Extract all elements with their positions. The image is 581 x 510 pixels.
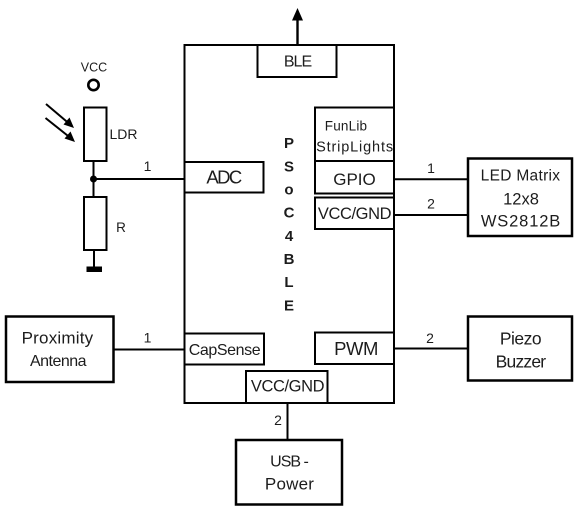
svg-text:B: B [284,251,295,268]
svg-text:VCC: VCC [81,61,107,75]
svg-text:1: 1 [427,160,435,176]
svg-text:2: 2 [274,412,282,428]
svg-text:L: L [284,274,293,291]
svg-text:4: 4 [285,228,294,245]
svg-text:C: C [284,205,295,222]
svg-text:Buzzer: Buzzer [496,352,547,372]
svg-text:Piezo: Piezo [500,329,541,349]
svg-text:Antenna: Antenna [30,353,87,370]
svg-text:StripLights: StripLights [316,140,394,156]
svg-text:FunLib: FunLib [325,119,367,134]
svg-text:BLE: BLE [284,54,312,71]
svg-text:ADC: ADC [206,167,241,188]
svg-text:1: 1 [144,158,152,174]
svg-text:WS2812B: WS2812B [481,213,561,231]
svg-text:S: S [284,158,294,175]
svg-text:2: 2 [426,330,434,346]
svg-text:Power: Power [265,475,314,494]
svg-text:1: 1 [144,330,152,346]
svg-text:o: o [284,182,293,199]
svg-text:P: P [284,135,294,152]
svg-text:LED Matrix: LED Matrix [481,168,561,185]
svg-text:LDR: LDR [109,126,137,142]
svg-text:USB -: USB - [270,454,308,471]
svg-text:Proximity: Proximity [22,329,94,348]
svg-text:VCC/GND: VCC/GND [318,205,392,223]
svg-text:CapSense: CapSense [189,342,261,359]
svg-text:GPIO: GPIO [333,170,376,189]
svg-text:12x8: 12x8 [503,191,539,209]
svg-text:PWM: PWM [334,338,378,359]
svg-text:R: R [116,220,126,235]
svg-text:VCC/GND: VCC/GND [251,378,325,396]
svg-text:2: 2 [427,196,435,212]
svg-text:E: E [284,297,294,314]
